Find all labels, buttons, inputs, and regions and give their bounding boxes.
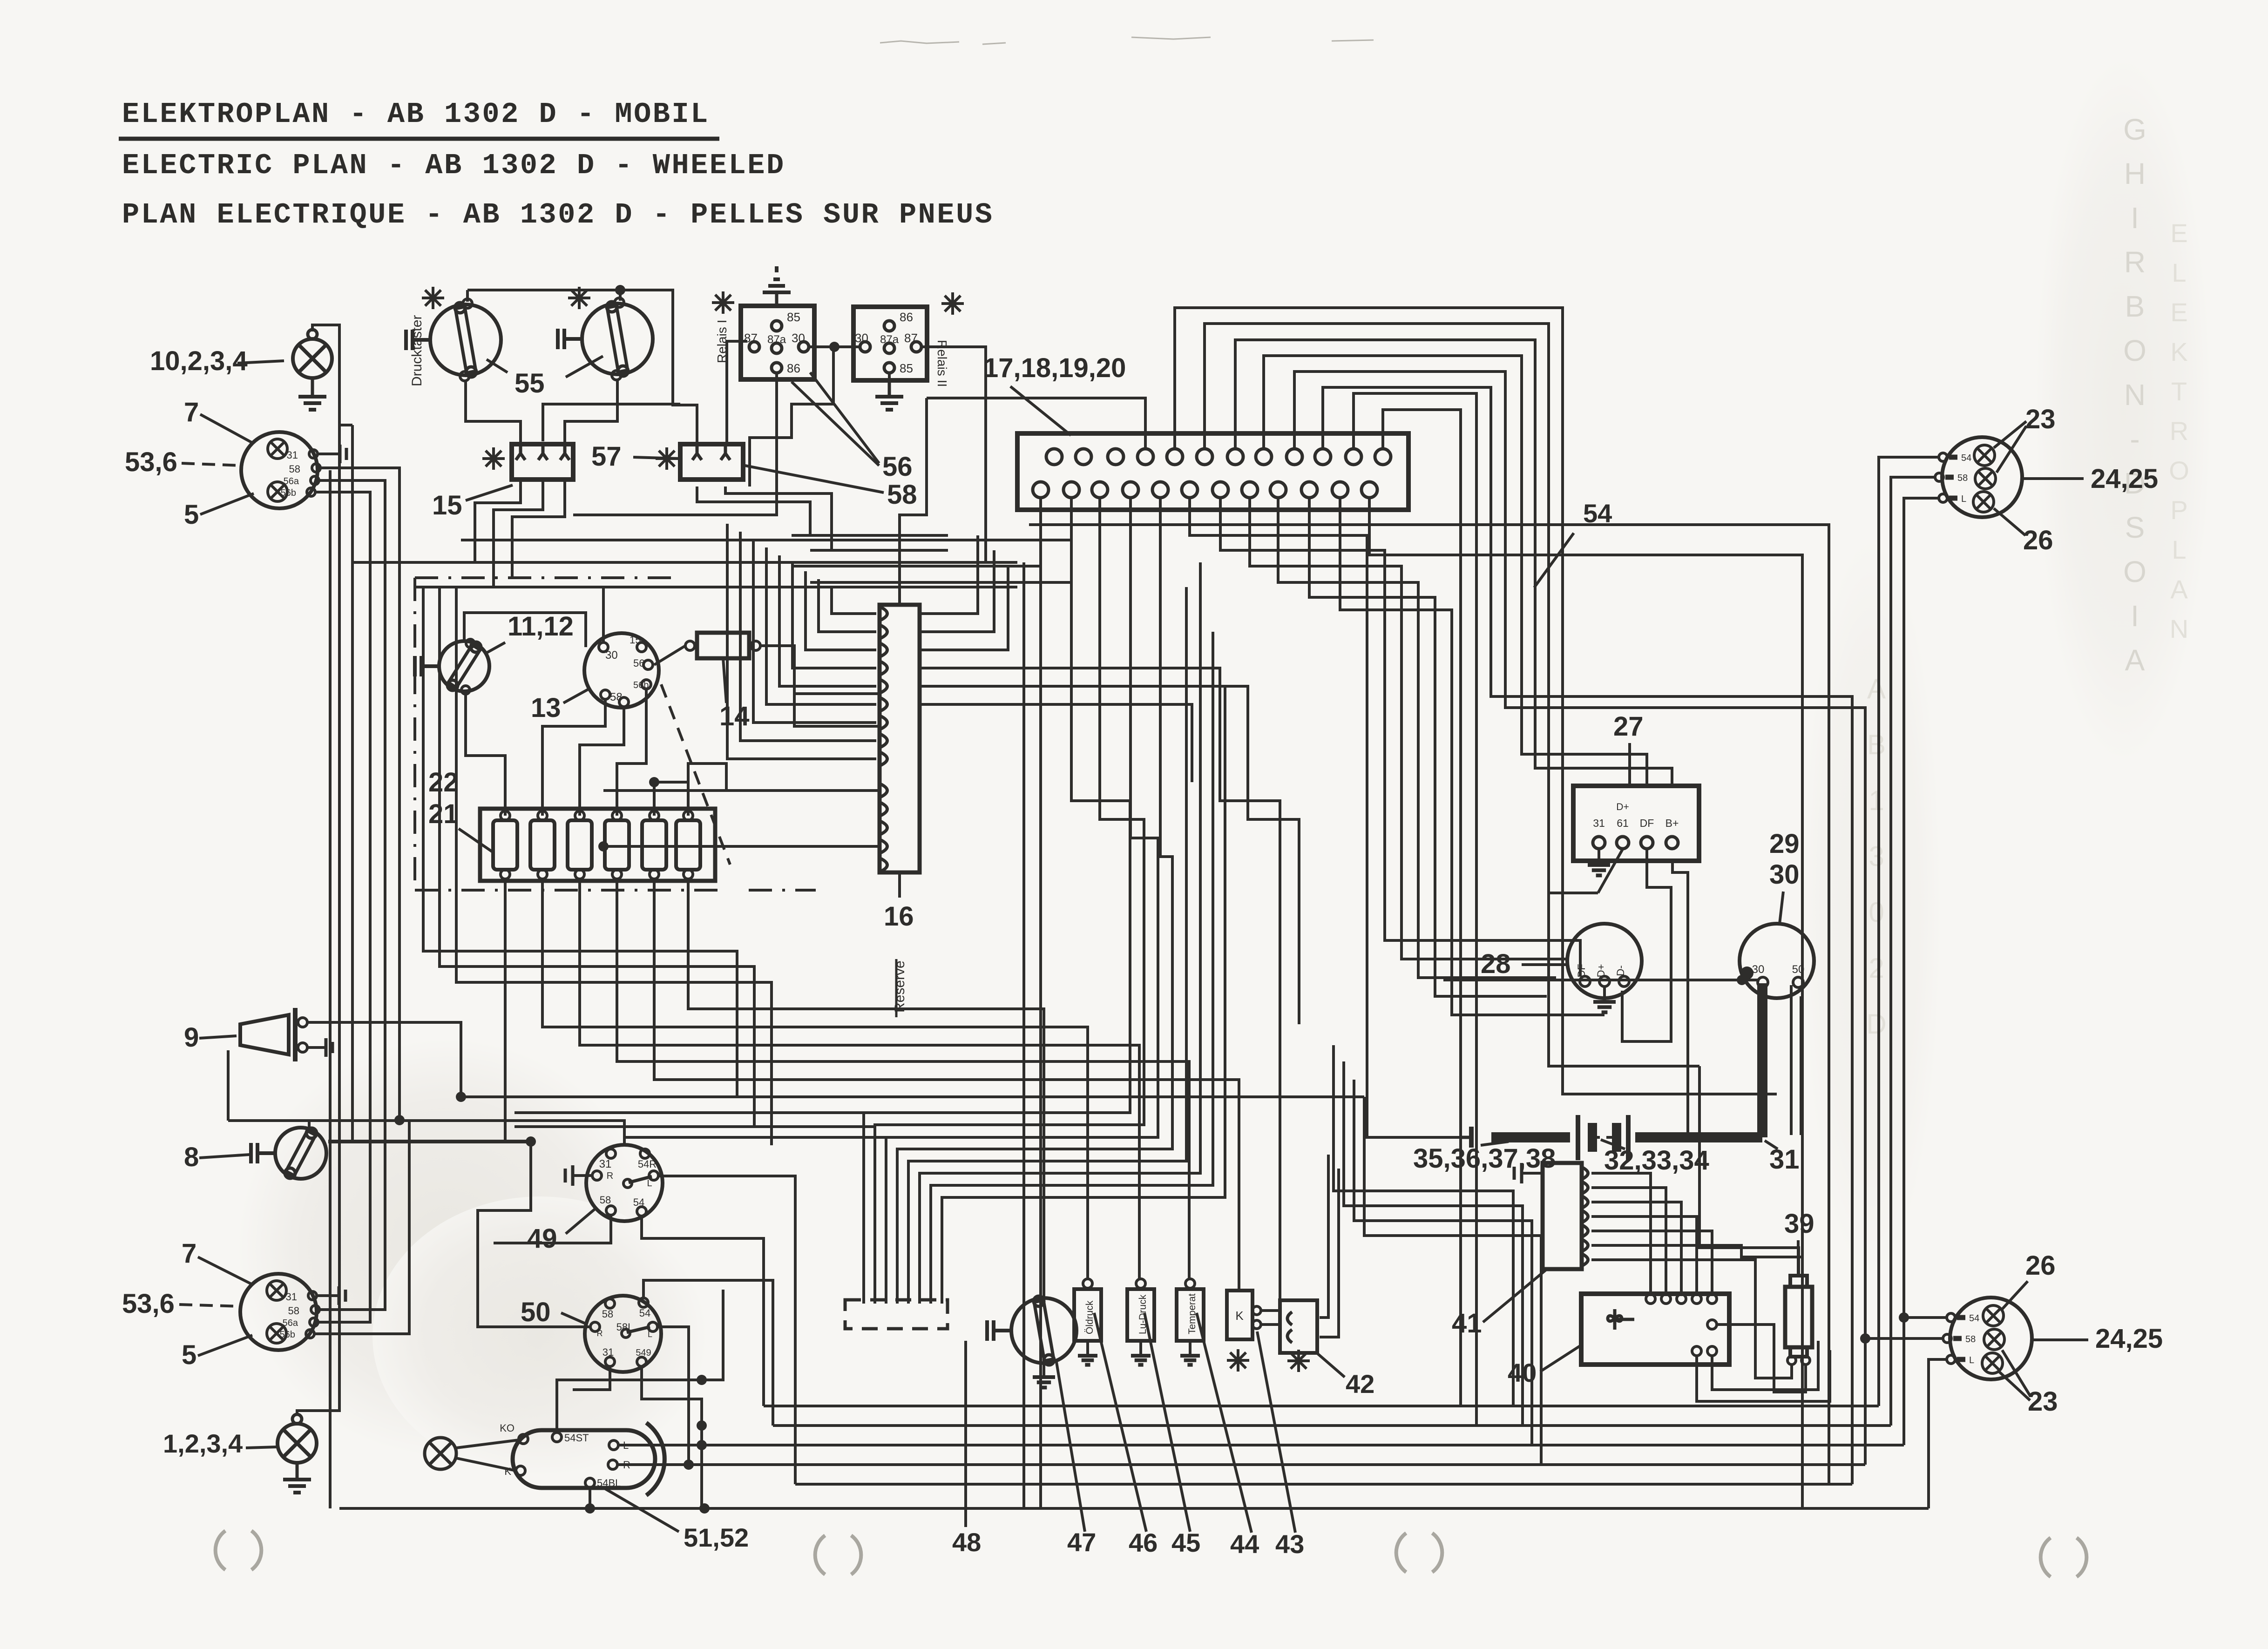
wire lamp2 feed L bbox=[1929, 1359, 1947, 1508]
switch 50 bbox=[585, 1296, 661, 1372]
svg-text:R: R bbox=[607, 1171, 613, 1181]
wire loop pin bbox=[1383, 410, 1461, 1406]
svg-text:44: 44 bbox=[1230, 1529, 1259, 1559]
svg-text:-: - bbox=[2130, 422, 2139, 456]
svg-text:3: 3 bbox=[1869, 841, 1884, 872]
wire long h y1208 bbox=[353, 561, 1017, 564]
horn 9 bbox=[240, 1015, 289, 1054]
svg-text:54: 54 bbox=[1969, 1313, 1979, 1324]
dash-dot box bbox=[415, 576, 681, 579]
junction 54BL bbox=[585, 1503, 595, 1514]
fuse box 21 22 bbox=[480, 809, 715, 881]
svg-text:58: 58 bbox=[288, 1305, 299, 1317]
wire bottom h2 bbox=[773, 1424, 1891, 1427]
svg-text:1: 1 bbox=[1869, 785, 1884, 816]
svg-text:15: 15 bbox=[432, 490, 462, 520]
wire conn48 staircase bbox=[864, 498, 1130, 1304]
svg-text:11,12: 11,12 bbox=[508, 611, 574, 642]
wire 50 549 down bbox=[642, 1366, 702, 1508]
svg-text:30: 30 bbox=[1769, 859, 1800, 890]
headlamp 7-53,6-5 upper bbox=[241, 432, 318, 508]
headlamp 7-53,6-5 lower bbox=[240, 1274, 317, 1350]
svg-text:ELECTRIC PLAN - AB 1302 D - WH: ELECTRIC PLAN - AB 1302 D - WHEELED bbox=[122, 149, 785, 182]
wire 15 pins down bbox=[475, 479, 521, 562]
wire conn48 staircase bbox=[875, 498, 1144, 1304]
wire starter50b bbox=[1800, 996, 1802, 1135]
wire 41arc5-fan bbox=[1591, 1231, 1712, 1294]
svg-text:43: 43 bbox=[1275, 1529, 1304, 1559]
registration mark bbox=[1396, 1533, 1406, 1572]
junction horn bus bbox=[456, 1092, 466, 1102]
svg-text:26: 26 bbox=[2025, 1250, 2056, 1281]
svg-text:L: L bbox=[1969, 1355, 1974, 1365]
wire 41arc6 bbox=[1591, 1245, 1802, 1257]
svg-text:10,2,3,4: 10,2,3,4 bbox=[150, 346, 248, 376]
svg-text:31: 31 bbox=[1769, 1144, 1800, 1175]
wire 41arc1-fan bbox=[1591, 1173, 1651, 1294]
svg-text:53,6: 53,6 bbox=[122, 1289, 175, 1319]
junction lamp2 mid bbox=[1860, 1333, 1870, 1344]
svg-text:14: 14 bbox=[719, 701, 750, 731]
star 55b bbox=[568, 287, 590, 309]
registration mark bbox=[2041, 1538, 2051, 1577]
wire 13 pin15 right bbox=[654, 646, 685, 665]
wire loop pin bbox=[1264, 356, 1647, 786]
svg-text:86: 86 bbox=[900, 310, 913, 324]
scan stain right band2 bbox=[1802, 535, 1942, 1280]
wire bpin right drop bbox=[1309, 498, 1547, 996]
svg-text:A: A bbox=[1867, 673, 1886, 704]
svg-text:A: A bbox=[2125, 643, 2145, 677]
wire loop pin bbox=[1235, 340, 1672, 786]
wire lamp-K bbox=[456, 1458, 516, 1471]
wire h y2356 mid bbox=[857, 1095, 1364, 1098]
wire f56 top up bbox=[688, 764, 726, 791]
svg-text:13: 13 bbox=[531, 693, 561, 723]
svg-text:ELEKTROPLAN - AB 1302 D - MOBI: ELEKTROPLAN - AB 1302 D - MOBIL bbox=[122, 98, 710, 131]
wire reg 61 diag bbox=[1598, 849, 1623, 893]
star relay I bbox=[712, 291, 734, 314]
svg-text:L: L bbox=[648, 1330, 652, 1339]
svg-text:23: 23 bbox=[2028, 1386, 2058, 1417]
svg-text:K: K bbox=[1235, 1309, 1244, 1323]
svg-text:K: K bbox=[2170, 337, 2187, 366]
svg-text:49: 49 bbox=[527, 1223, 557, 1254]
wire strip16 bot down bbox=[898, 872, 901, 890]
wire h y1182 left bbox=[810, 549, 948, 552]
svg-text:D: D bbox=[1866, 1008, 1886, 1040]
wire 57 pin2 down bbox=[725, 487, 948, 550]
wire h y855 right bbox=[927, 398, 1145, 448]
wire 13 pin30 up bbox=[602, 587, 605, 642]
wire sw55b bottom bbox=[565, 380, 617, 446]
svg-text:58: 58 bbox=[602, 1308, 613, 1320]
svg-text:50: 50 bbox=[521, 1297, 551, 1327]
wire lamp1 feed mid bbox=[1891, 477, 1935, 1426]
wire res39 top bbox=[1699, 1066, 1799, 1276]
svg-text:29: 29 bbox=[1769, 829, 1800, 859]
svg-text:Drucktaster: Drucktaster bbox=[409, 315, 425, 386]
wire 54 long bbox=[1029, 525, 1829, 1484]
svg-text:24,25: 24,25 bbox=[2091, 464, 2158, 494]
registration mark bbox=[216, 1531, 225, 1570]
svg-text:32,33,34: 32,33,34 bbox=[1604, 1145, 1709, 1176]
wire wiper 54ST up bbox=[557, 1290, 723, 1433]
svg-text:L: L bbox=[2172, 535, 2186, 564]
switch 49 bbox=[586, 1145, 663, 1221]
wire reg DF down bbox=[1622, 848, 1671, 1041]
wire conn48 left1 bbox=[515, 1111, 864, 1114]
star 43 bbox=[1227, 1349, 1249, 1372]
svg-text:T: T bbox=[2171, 377, 2187, 406]
component 42 bbox=[1280, 1300, 1317, 1353]
svg-text:Reserve: Reserve bbox=[892, 960, 907, 1013]
svg-text:24,25: 24,25 bbox=[2095, 1324, 2163, 1354]
svg-text:B: B bbox=[1867, 729, 1886, 760]
svg-text:R: R bbox=[2170, 416, 2188, 446]
terminal strip 16 bbox=[880, 605, 920, 872]
wire relay41 feed4 bbox=[1364, 1097, 1541, 1465]
wire relay junction down bbox=[750, 343, 833, 487]
wire strip16 arc left bbox=[727, 524, 876, 759]
lamp 1,2,3,4 bbox=[278, 1424, 317, 1463]
svg-text:55: 55 bbox=[515, 368, 545, 399]
wire hl-lower 56b left bbox=[314, 1120, 409, 1334]
wire h y2407 bbox=[228, 1121, 624, 1145]
svg-text:45: 45 bbox=[1171, 1528, 1200, 1557]
wire bottom h3 bbox=[618, 1444, 1904, 1446]
wire hl-lower 31stub bbox=[316, 1294, 339, 1297]
wire strip16 right3 bbox=[920, 566, 1008, 650]
svg-text:54: 54 bbox=[633, 1196, 644, 1208]
svg-text:0: 0 bbox=[1869, 897, 1884, 928]
svg-text:87a: 87a bbox=[880, 333, 899, 346]
svg-text:56: 56 bbox=[882, 452, 913, 482]
junction 30 bbox=[1740, 966, 1753, 980]
scan stain right band bbox=[2035, 56, 2212, 764]
junction wiper R bbox=[684, 1460, 694, 1470]
wire 57 pin1 down bbox=[697, 487, 948, 535]
svg-text:87a: 87a bbox=[767, 333, 786, 346]
svg-text:8: 8 bbox=[184, 1142, 199, 1172]
svg-text:58: 58 bbox=[600, 1194, 611, 1206]
svg-text:56: 56 bbox=[633, 657, 644, 669]
wire fan bot1 bbox=[1697, 1350, 1830, 1401]
svg-text:57: 57 bbox=[591, 441, 622, 472]
wire lamp-KO bbox=[456, 1440, 519, 1448]
svg-text:54ST: 54ST bbox=[564, 1432, 589, 1444]
svg-text:O: O bbox=[2123, 334, 2146, 367]
component 43 bbox=[1227, 1291, 1252, 1339]
wire f3 down bbox=[580, 879, 1139, 1280]
wire midleft loop3 bbox=[456, 587, 772, 1145]
wire loop pin bbox=[1354, 393, 1476, 1426]
wire 13 pin56 down bbox=[617, 689, 646, 816]
wire strip16 arc left bbox=[806, 571, 876, 650]
junction f4 bbox=[649, 777, 659, 787]
wire bpin1 down bbox=[1039, 498, 1042, 1508]
wire strip16 right4 bbox=[920, 668, 1280, 1299]
junction left bus bbox=[394, 1115, 405, 1125]
wire conn48 pin8 bbox=[942, 686, 1225, 1304]
wiper switch 51,52 bbox=[513, 1430, 655, 1488]
svg-text:L: L bbox=[1961, 494, 1966, 504]
junction wiper L bbox=[697, 1440, 707, 1450]
switch 8 bbox=[275, 1128, 326, 1179]
star 55a bbox=[422, 287, 444, 309]
svg-text:5: 5 bbox=[182, 1340, 196, 1370]
wire pin4 up-left bbox=[1144, 398, 1147, 449]
junction starter30 bbox=[1737, 975, 1747, 985]
svg-text:31: 31 bbox=[603, 1346, 614, 1358]
wire conn48 staircase bbox=[886, 498, 1158, 1304]
wire strip16 arc left bbox=[740, 532, 876, 741]
wire comp42 feed2 bbox=[1320, 1169, 1339, 1337]
wire strip16 arc left bbox=[819, 579, 876, 632]
wire f6 down bbox=[688, 879, 1044, 1298]
wire strip16 arc left bbox=[779, 555, 876, 686]
wire h y1150 left bbox=[792, 534, 948, 537]
wire relayII 85 down bbox=[888, 373, 891, 380]
star 42 bbox=[1287, 1350, 1310, 1372]
svg-text:7: 7 bbox=[182, 1238, 196, 1269]
svg-text:51,52: 51,52 bbox=[684, 1523, 749, 1552]
junction lamp2 top bbox=[1899, 1312, 1909, 1323]
wire conn48 pin7 bbox=[931, 632, 1213, 1304]
wire reg 61 left bbox=[1549, 892, 1598, 894]
svg-text:DF: DF bbox=[1640, 817, 1654, 829]
svg-text:56a: 56a bbox=[284, 476, 299, 487]
svg-text:549: 549 bbox=[636, 1348, 651, 1358]
wire 43-42b bbox=[1261, 1323, 1280, 1326]
relay 41 ground bbox=[1522, 1172, 1543, 1175]
connector 48 bbox=[845, 1300, 948, 1329]
lamp 10,2,3,4 bbox=[293, 339, 332, 378]
connector 57 bbox=[680, 444, 743, 480]
wire relayI-relayII bbox=[809, 345, 860, 348]
resistor 14 bbox=[697, 633, 749, 658]
junction 54ST bbox=[697, 1375, 707, 1385]
battery 35..38 / 32,33,34 / 31 bbox=[1491, 1132, 1570, 1142]
svg-text:H: H bbox=[2124, 157, 2146, 190]
sender 45 bbox=[1127, 1289, 1154, 1341]
wire 41arc7 bbox=[1591, 1260, 1792, 1378]
wire lamp2 feed mid bbox=[1865, 1337, 1943, 1340]
svg-text:31: 31 bbox=[287, 449, 298, 461]
svg-text:42: 42 bbox=[1346, 1369, 1374, 1399]
star relay II bbox=[941, 292, 964, 315]
sender 46 bbox=[1074, 1289, 1101, 1341]
wire fan right circ bbox=[1717, 1325, 1806, 1392]
ignition switch 11,12 bbox=[439, 641, 489, 691]
wire bottom h1 bbox=[764, 1405, 1879, 1407]
svg-text:Öldruck: Öldruck bbox=[1084, 1300, 1095, 1334]
wire strip16 reserve2 bbox=[603, 845, 880, 848]
resistor 39 bbox=[1785, 1287, 1812, 1347]
wire bottom h6 bbox=[339, 1507, 1929, 1510]
svg-text:N: N bbox=[2124, 378, 2146, 412]
wire res14 right bbox=[760, 646, 880, 726]
svg-text:D+: D+ bbox=[1595, 964, 1607, 978]
switch 49 ground bbox=[573, 1174, 592, 1177]
wire fan bot2 bbox=[1712, 1341, 1818, 1390]
wire starter50 down bbox=[1790, 985, 1793, 1135]
svg-text:58: 58 bbox=[887, 480, 917, 510]
wire stair1 bbox=[1022, 562, 1025, 1508]
wire 15 pin2 down bbox=[494, 479, 543, 587]
wire f5 down bbox=[654, 879, 1239, 1291]
svg-text:56b: 56b bbox=[633, 680, 649, 690]
svg-text:5: 5 bbox=[184, 500, 199, 530]
wire top bus to 57 bbox=[620, 290, 697, 446]
wire lamp2 feed top bbox=[1904, 1316, 1947, 1319]
pencil smudge bbox=[880, 41, 959, 43]
junction top bus bbox=[615, 285, 625, 295]
svg-text:31: 31 bbox=[1593, 817, 1605, 829]
wire y15 pin2 up bbox=[543, 404, 680, 441]
wire midleft loop2 bbox=[440, 587, 754, 1127]
wiper lamp bbox=[425, 1438, 456, 1469]
dynamo 28 bbox=[1567, 924, 1642, 998]
starter 29 30 bbox=[1740, 924, 1814, 998]
svg-text:86: 86 bbox=[787, 361, 800, 375]
svg-text:B+: B+ bbox=[1665, 817, 1679, 829]
dynamo ground bbox=[1603, 987, 1606, 1002]
junction relays bbox=[829, 342, 839, 352]
wire loop pin bbox=[1294, 372, 1865, 1465]
wire loop pin bbox=[1323, 387, 1852, 1484]
regulator 27 bbox=[1573, 786, 1699, 861]
sender 44 bbox=[1177, 1289, 1204, 1341]
svg-text:30: 30 bbox=[1752, 963, 1765, 976]
wire relay41 feed3 bbox=[1354, 1080, 1532, 1445]
wire 49 ground link bbox=[623, 1137, 626, 1145]
svg-text:O: O bbox=[2169, 456, 2189, 485]
dashed diagonal bbox=[661, 684, 730, 865]
svg-text:53,6: 53,6 bbox=[125, 447, 177, 477]
svg-text:E: E bbox=[2170, 218, 2187, 248]
svg-text:O: O bbox=[2123, 555, 2146, 588]
wire long h y1261 bbox=[415, 586, 1017, 588]
relay strip 41 bbox=[1543, 1163, 1582, 1269]
relay II bbox=[853, 307, 927, 380]
wire bottom h4 bbox=[617, 1463, 1865, 1466]
svg-text:I: I bbox=[2131, 201, 2139, 235]
svg-text:R: R bbox=[597, 1329, 603, 1338]
svg-text:2: 2 bbox=[1869, 953, 1884, 984]
wire bpin right drop bbox=[1340, 498, 1605, 1015]
svg-text:85: 85 bbox=[787, 310, 800, 324]
svg-text:54BL: 54BL bbox=[597, 1477, 621, 1489]
wire lamp A top to bus bbox=[297, 325, 339, 1415]
wire 41arc2-fan bbox=[1591, 1188, 1666, 1294]
wire bpin right drop bbox=[1278, 498, 1556, 978]
svg-text:L: L bbox=[647, 1178, 652, 1189]
wire sw55b top bbox=[619, 290, 622, 301]
wire res14 right2 bbox=[794, 692, 880, 695]
svg-text:S: S bbox=[2125, 511, 2145, 544]
svg-text:KO: KO bbox=[500, 1422, 515, 1434]
svg-text:54R: 54R bbox=[638, 1158, 657, 1170]
registration mark bbox=[815, 1535, 825, 1575]
wire relay41 feed2 bbox=[1344, 1061, 1523, 1426]
wire 50 54 up bbox=[643, 1280, 773, 1426]
wire h y2452 thick bbox=[328, 1140, 531, 1143]
wire strip16 arc left bbox=[792, 563, 876, 668]
junction 1507a bbox=[697, 1420, 707, 1431]
Drucktaster switch 55b bbox=[582, 304, 653, 374]
svg-text:56b: 56b bbox=[281, 488, 296, 498]
svg-text:58: 58 bbox=[289, 463, 300, 475]
fan unit 40 bbox=[1581, 1294, 1729, 1365]
battery thick lead bbox=[1757, 983, 1767, 1137]
wire strip16 right6 bbox=[920, 704, 1192, 782]
wire bpin right drop bbox=[1220, 498, 1580, 976]
wire f1 down bbox=[504, 879, 507, 1142]
wire lamp1 feed top bbox=[1879, 457, 1939, 1406]
wire 49 58 down bbox=[494, 1215, 611, 1243]
junction reserve bbox=[598, 841, 609, 852]
wire h y2407 stub-up bbox=[227, 1050, 230, 1121]
svg-text:26: 26 bbox=[2023, 525, 2053, 555]
svg-text:47: 47 bbox=[1067, 1527, 1096, 1557]
wire 50 31 down bbox=[573, 1366, 610, 1390]
wire strip16 arc left bbox=[753, 540, 876, 723]
svg-text:61: 61 bbox=[1617, 817, 1629, 829]
svg-text:7: 7 bbox=[184, 397, 199, 427]
wire loop pin bbox=[1205, 324, 1699, 1066]
lamp cluster bottom-right 26/24,25/23 bbox=[1950, 1298, 2032, 1379]
wire sw55a top up bbox=[466, 290, 469, 302]
wire midleft loop1 bbox=[423, 587, 737, 1097]
switch 47 bbox=[1011, 1298, 1076, 1363]
wire relay41 feed1 bbox=[1334, 1045, 1513, 1406]
wire relayI 86 down bbox=[573, 373, 777, 515]
junction y2452 bbox=[526, 1136, 536, 1147]
Drucktaster switch 55a bbox=[430, 304, 501, 375]
wire lamp1 feed bot bbox=[1904, 498, 1939, 1445]
light switch 13 bbox=[584, 633, 659, 708]
wire hl-upper 58 right-down bbox=[320, 468, 399, 1120]
wire bpin right drop bbox=[1369, 498, 1802, 1508]
title underline bbox=[119, 137, 719, 141]
wire 41arc4-fan bbox=[1591, 1216, 1697, 1294]
wire h y2356 left bbox=[461, 1095, 857, 1098]
wire bottom h5 bbox=[795, 1483, 1852, 1486]
wire h y1216 left bbox=[792, 565, 1041, 568]
wire conn48 left3 bbox=[624, 1136, 886, 1139]
wire strip16 right1 bbox=[920, 535, 978, 614]
svg-text:23: 23 bbox=[2025, 404, 2056, 434]
wire f4 top up bbox=[654, 782, 688, 816]
wire bus x757 bbox=[351, 425, 354, 1142]
wire wiper 54BL down bbox=[589, 1487, 591, 1508]
wire x1140 down bbox=[478, 1142, 585, 1327]
svg-text:N: N bbox=[2170, 614, 2188, 643]
svg-text:30: 30 bbox=[855, 331, 868, 345]
svg-text:58: 58 bbox=[610, 691, 623, 703]
svg-text:E: E bbox=[2170, 297, 2187, 327]
svg-text:PLAN ELECTRIQUE - AB 1302 D -: PLAN ELECTRIQUE - AB 1302 D - PELLES SUR… bbox=[122, 198, 994, 231]
wire sw55a bottom loop bbox=[466, 381, 521, 446]
svg-text:46: 46 bbox=[1129, 1528, 1158, 1557]
wire conn48 pin5 bbox=[908, 587, 1186, 1304]
regulator 27 ground bbox=[1598, 849, 1600, 865]
svg-text:87: 87 bbox=[744, 331, 758, 345]
svg-text:15: 15 bbox=[630, 634, 641, 646]
wire 41arc3-fan bbox=[1591, 1202, 1681, 1294]
wire comp42 feed1 bbox=[1320, 1155, 1328, 1318]
